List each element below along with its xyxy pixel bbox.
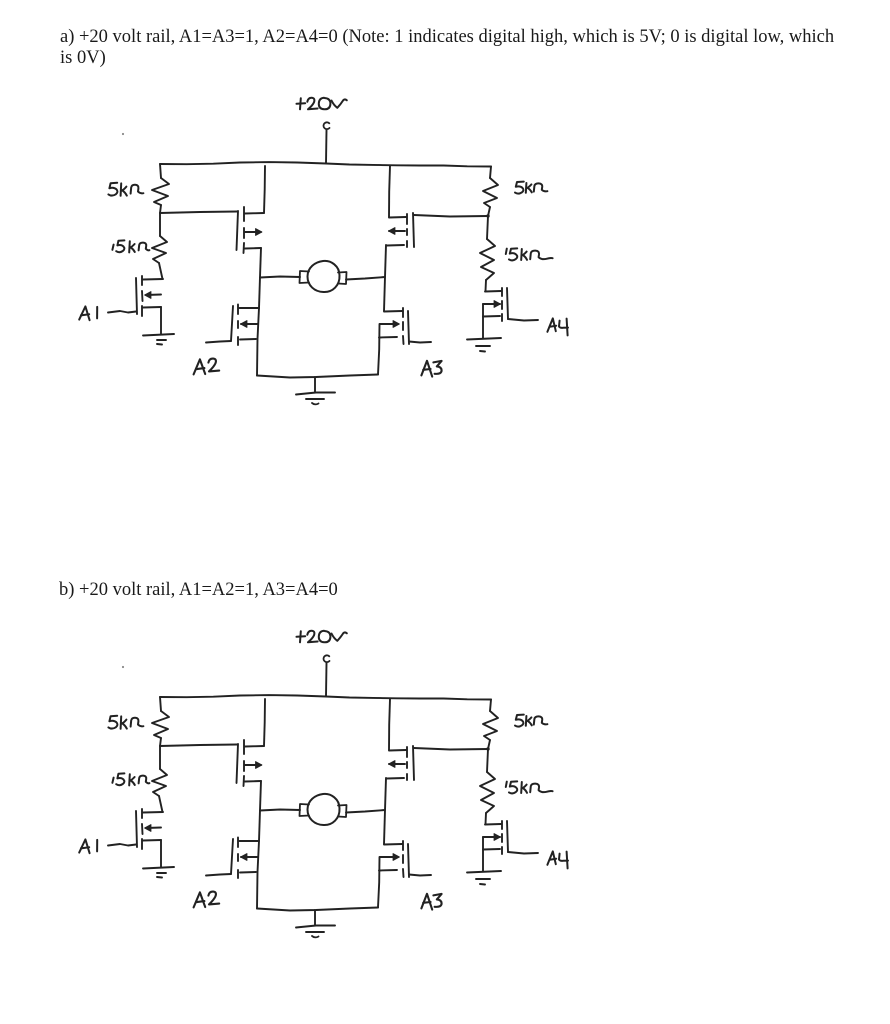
transistor Q-A1 body lead (b) (146, 827, 161, 830)
transistor Q-A1 channel bottom dash (b) (141, 839, 143, 849)
ground below A1 bar3 (b) (157, 876, 162, 879)
transistor Q-UR body lead (b) (389, 763, 405, 765)
transistor Q-A3 body lead (b) (380, 856, 398, 858)
ground below A1 bar1 (a) (143, 334, 174, 336)
transistor Q-A4 body lead (a) (483, 303, 500, 305)
wire Q-A4 body-source down to ground (b) (482, 837, 484, 871)
transistor Q-A4 channel bottom dash (a) (501, 314, 503, 321)
transistor Q-UR channel mid dash (a) (406, 229, 408, 235)
transistor Q-A3 gate bar (b) (408, 844, 409, 877)
transistor Q-UR drain lead (a) (389, 216, 406, 219)
label 5kohm left (a) (108, 183, 143, 196)
label A4 (b) (547, 851, 568, 868)
transistor Q-A2 drain lead (a) (240, 307, 260, 309)
ground central stem (a) (314, 377, 316, 392)
transistor Q-A2 gate bar (b) (231, 839, 233, 874)
ground below A4 bar3 (a) (480, 350, 485, 353)
transistor Q-A1 channel mid dash (a) (141, 291, 144, 301)
wire left leg vertical (a) (257, 248, 261, 376)
transistor Q-A4 drain lead (b) (485, 823, 501, 826)
label A1 (b) (79, 839, 97, 853)
transistor Q-A3 drain lead (a) (384, 310, 402, 313)
transistor Q-A3 drain lead (b) (384, 843, 402, 846)
circuit (a) hand-drawn H-bridge (79, 98, 568, 405)
wire A4 gate lead (b) (508, 852, 538, 854)
transistor Q-UL channel top dash (b) (243, 740, 245, 754)
transistor Q-UL drain lead (b) (245, 745, 264, 748)
ground central bar2 (a) (306, 398, 324, 400)
label A2 (b) (194, 892, 220, 908)
label 15kohm left (b) (112, 773, 149, 785)
label 15kohm left (a) (112, 240, 149, 252)
ground central bar3 (a) (312, 403, 319, 404)
wire Q-A4 body-source down to ground (a) (482, 304, 484, 338)
transistor Q-A1 drain lead (b) (143, 811, 163, 814)
wire Q-UR drain up to rail (b) (389, 699, 390, 750)
wire Q-A1 source down to ground (a) (160, 307, 162, 334)
label +20v supply (a) (297, 98, 347, 110)
label A3 (a) (421, 361, 441, 377)
ground below A4 bar1 (b) (467, 871, 501, 873)
wire bottom rail to central ground (b) (257, 908, 378, 911)
ground below A4 bar2 (b) (476, 878, 490, 880)
stray scan dot (b) (122, 666, 124, 668)
resistor R4 15k-right zigzag (a) (480, 239, 495, 280)
transistor Q-UL source lead (b) (245, 780, 261, 783)
wire right leg vertical lower (a) (378, 324, 380, 375)
wire A2 gate lead (b) (206, 874, 231, 876)
wire right leg vertical lower (b) (378, 857, 380, 908)
transistor Q-A1 body lead (a) (146, 294, 161, 297)
wire left junction to gate of upper-left transistor (a) (160, 212, 237, 214)
transistor Q-UR source lead (b) (387, 777, 404, 780)
wire 5k-left to junction (a) (160, 205, 161, 213)
label A1 (a) (79, 306, 97, 320)
wire junction down to 15k-right (b) (487, 749, 488, 772)
resistor R2 15k-left zigzag (b) (152, 769, 167, 796)
transistor Q-A1 channel bottom dash (a) (141, 306, 143, 316)
wire A1 gate lead (b) (108, 844, 136, 846)
wire Q-UR gate to right junction (a) (414, 215, 488, 217)
wire junction down to 15k-right (a) (487, 216, 488, 239)
transistor Q-A2 channel top dash (b) (237, 838, 239, 848)
transistor Q-A4 gate bar (b) (507, 821, 508, 852)
label A2 (a) (194, 359, 220, 375)
transistor Q-UL channel bottom dash (a) (243, 243, 246, 253)
ground below A1 bar2 (a) (157, 339, 166, 341)
transistor Q-UL channel mid dash (b) (243, 761, 245, 771)
ground central bar3 (b) (312, 936, 319, 937)
ground central bar1 (b) (296, 926, 335, 928)
transistor Q-A3 channel bottom dash (b) (402, 869, 405, 877)
wire 5k-right to junction (a) (488, 207, 490, 216)
caption text b (59, 580, 338, 601)
transistor Q-A4 source lead (b) (483, 848, 500, 851)
transistor Q-A4 drain lead (a) (485, 290, 501, 293)
caption text a (60, 27, 860, 68)
resistor R4 15k-right zigzag (b) (480, 772, 495, 813)
transistor Q-A4 body arrow (a) (494, 301, 501, 308)
transistor Q-UR channel bottom dash (a) (406, 241, 408, 247)
wire junction down to 15k-left (b) (159, 746, 161, 769)
circuit (b) hand-drawn H-bridge (79, 631, 568, 938)
transistor Q-A2 channel top dash (a) (237, 305, 239, 315)
wire motor left lead (a) (260, 277, 300, 278)
transistor Q-A4 channel top dash (a) (501, 288, 503, 296)
ground below A1 bar3 (a) (157, 343, 162, 346)
motor M1 body circle (a) (308, 261, 340, 292)
transistor Q-A3 source lead (b) (379, 869, 397, 872)
transistor Q-UL channel top dash (a) (243, 207, 245, 221)
wire left leg vertical (b) (257, 781, 261, 909)
wire Q-UL drain up to rail (a) (264, 166, 265, 213)
label 15kohm right (b) (506, 781, 553, 793)
resistor R3 5k-right zigzag (a) (483, 178, 498, 207)
wire motor right lead (b) (346, 810, 385, 813)
transistor Q-A3 body arrow (a) (393, 321, 400, 328)
wire motor left lead (b) (260, 810, 300, 811)
wire rail to 5k-left (a) (160, 164, 161, 178)
wire rail to 5k-right (b) (490, 700, 491, 712)
transistor Q-A4 gate bar (a) (507, 288, 508, 319)
ground below A4 bar2 (a) (476, 345, 490, 347)
label 5kohm right (b) (515, 715, 547, 727)
junction dot right divider (a) (486, 214, 489, 217)
transistor Q-A2 body arrow (a) (241, 321, 248, 328)
wire 15k-left down to A1 drain (a) (159, 263, 163, 279)
transistor Q-UL body lead (b) (245, 764, 261, 766)
wire 15k-right down to A4 drain (a) (485, 280, 488, 291)
wire Q-UR drain up to rail (a) (389, 166, 390, 217)
wire A3 gate lead (b) (409, 875, 431, 876)
transistor Q-A1 gate bar (b) (136, 811, 137, 847)
transistor Q-UR channel top dash (a) (406, 214, 408, 224)
transistor Q-A4 body lead (b) (483, 836, 500, 838)
transistor Q-A3 gate bar (a) (408, 311, 409, 344)
ground below A4 bar1 (a) (467, 338, 501, 340)
terminal circle at +20V supply (b) (324, 655, 330, 662)
transistor Q-A2 source lead (a) (240, 338, 256, 341)
wire top +20V rail (a) (160, 162, 491, 166)
transistor Q-A1 channel top dash (a) (141, 276, 143, 285)
transistor Q-UR channel top dash (b) (406, 747, 408, 757)
wire A3 gate lead (a) (409, 342, 431, 343)
motor M1 body circle (b) (308, 794, 340, 825)
transistor Q-A1 gate bar (a) (136, 278, 137, 314)
transistor Q-UR gate bar (a) (413, 213, 414, 247)
transistor Q-UL gate bar (a) (237, 211, 239, 250)
transistor Q-A3 body arrow (b) (393, 854, 400, 861)
transistor Q-A2 gate bar (a) (231, 306, 233, 341)
ground below A1 bar1 (b) (143, 867, 174, 869)
wire supply lead down to rail (b) (325, 663, 328, 696)
transistor Q-A3 channel mid dash (a) (402, 322, 404, 330)
ground below A1 bar2 (b) (157, 872, 166, 874)
wire Q-UR gate to right junction (b) (414, 748, 488, 750)
resistor R1 5k-left zigzag (a) (152, 178, 169, 205)
transistor Q-A2 body arrow (b) (241, 854, 248, 861)
label A3 (b) (421, 894, 441, 910)
wire right leg vertical upper (b) (384, 778, 386, 844)
transistor Q-UL channel bottom dash (b) (243, 776, 246, 786)
wire 15k-right down to A4 drain (b) (485, 813, 488, 824)
transistor Q-A3 body lead (a) (380, 323, 398, 325)
transistor Q-A2 body lead (a) (241, 323, 258, 325)
ground central stem (b) (314, 910, 316, 925)
transistor Q-UR drain lead (b) (389, 749, 406, 752)
transistor Q-UR source lead (a) (387, 244, 404, 247)
label 5kohm left (b) (108, 716, 143, 729)
transistor Q-A3 channel bottom dash (a) (402, 336, 405, 344)
transistor Q-UL drain lead (a) (245, 212, 264, 215)
transistor Q-A4 channel top dash (b) (501, 821, 503, 829)
motor M1 right terminal box (b) (338, 805, 347, 817)
transistor Q-A1 channel mid dash (b) (141, 824, 144, 834)
wire left junction to gate of upper-left transistor (b) (160, 745, 237, 747)
transistor Q-A2 channel mid dash (a) (237, 321, 239, 328)
transistor Q-A2 channel bottom dash (a) (237, 337, 239, 345)
transistor Q-UL body lead (a) (245, 231, 261, 233)
transistor Q-UL channel mid dash (a) (243, 228, 245, 238)
motor M1 left terminal box (a) (300, 271, 310, 283)
transistor Q-A3 channel mid dash (b) (402, 855, 404, 863)
transistor Q-A3 source lead (a) (379, 336, 397, 339)
resistor R2 15k-left zigzag (a) (152, 236, 167, 263)
resistor R3 5k-right zigzag (b) (483, 711, 498, 740)
wire 5k-left to junction (b) (160, 738, 161, 746)
transistor Q-A4 source lead (a) (483, 315, 500, 318)
wire top +20V rail (b) (160, 695, 491, 699)
transistor Q-A3 channel top dash (b) (402, 841, 404, 850)
transistor Q-UR body arrow (a) (389, 228, 396, 235)
wire 5k-right to junction (b) (488, 740, 490, 749)
transistor Q-UL source lead (a) (245, 247, 261, 250)
wire Q-A1 source down to ground (b) (160, 840, 162, 867)
transistor Q-A2 channel mid dash (b) (237, 854, 239, 861)
wire A1 gate lead (a) (108, 311, 136, 313)
resistor R1 5k-left zigzag (b) (152, 711, 169, 738)
transistor Q-A2 body lead (b) (241, 856, 258, 858)
wire junction down to 15k-left (a) (159, 213, 161, 236)
label 15kohm right (a) (506, 248, 553, 260)
junction dot right divider (b) (486, 747, 489, 750)
transistor Q-A2 source lead (b) (240, 871, 256, 874)
wire rail to 5k-left (b) (160, 697, 161, 711)
transistor Q-UL body arrow (a) (256, 229, 263, 236)
wire rail to 5k-right (a) (490, 167, 491, 179)
transistor Q-A1 drain lead (a) (143, 278, 163, 281)
transistor Q-A1 source lead (a) (143, 306, 161, 309)
wire Q-UL drain up to rail (b) (264, 699, 265, 746)
ground central bar2 (b) (306, 931, 324, 933)
wire bottom rail to central ground (a) (257, 375, 378, 378)
transistor Q-A4 body arrow (b) (494, 834, 501, 841)
transistor Q-A4 channel mid dash (a) (501, 301, 503, 309)
ground below A4 bar3 (b) (480, 883, 485, 886)
transistor Q-A3 channel top dash (a) (402, 308, 404, 317)
wire right leg vertical upper (a) (384, 245, 386, 311)
transistor Q-UR channel mid dash (b) (406, 762, 408, 768)
wire A2 gate lead (a) (206, 341, 231, 343)
label +20v supply (b) (297, 631, 347, 643)
wire supply lead down to rail (a) (325, 130, 328, 163)
transistor Q-A1 source lead (b) (143, 839, 161, 842)
transistor Q-A1 body arrow (a) (145, 292, 152, 299)
transistor Q-UL gate bar (b) (237, 744, 239, 783)
wire motor right lead (a) (346, 277, 385, 280)
transistor Q-A4 channel mid dash (b) (501, 834, 503, 842)
transistor Q-UR gate bar (b) (413, 746, 414, 780)
ground central bar1 (a) (296, 393, 335, 395)
transistor Q-UR channel bottom dash (b) (406, 774, 408, 780)
wire A4 gate lead (a) (508, 319, 538, 321)
transistor Q-UL body arrow (b) (256, 762, 263, 769)
transistor Q-A2 drain lead (b) (240, 840, 260, 842)
transistor Q-A1 body arrow (b) (145, 825, 152, 832)
transistor Q-UR body arrow (b) (389, 761, 396, 768)
motor M1 left terminal box (b) (300, 804, 310, 816)
transistor Q-UR body lead (a) (389, 230, 405, 232)
stray scan dot (a) (122, 133, 124, 135)
transistor Q-A1 channel top dash (b) (141, 809, 143, 818)
transistor Q-A2 channel bottom dash (b) (237, 870, 239, 878)
label 5kohm right (a) (515, 182, 547, 194)
transistor Q-A4 channel bottom dash (b) (501, 847, 503, 854)
motor M1 right terminal box (a) (338, 272, 347, 284)
wire 15k-left down to A1 drain (b) (159, 796, 163, 812)
label A4 (a) (547, 318, 568, 335)
terminal circle at +20V supply (a) (324, 122, 330, 129)
